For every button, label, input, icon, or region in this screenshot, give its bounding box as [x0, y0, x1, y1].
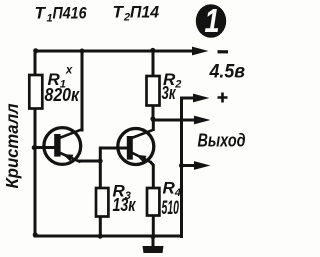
svg-text:510: 510: [162, 198, 180, 219]
svg-text:Т: Т: [113, 3, 125, 22]
svg-text:Т: Т: [35, 4, 47, 23]
svg-text:820к: 820к: [45, 85, 80, 105]
svg-text:13к: 13к: [113, 195, 137, 215]
svg-text:Кристалл: Кристалл: [2, 103, 22, 188]
svg-text:4.5в: 4.5в: [209, 62, 245, 83]
svg-text:Выход: Выход: [198, 131, 246, 151]
svg-text:П14: П14: [130, 3, 160, 22]
svg-text:3к: 3к: [162, 83, 177, 103]
svg-text:П416: П416: [53, 4, 87, 23]
svg-text:1: 1: [204, 4, 219, 40]
